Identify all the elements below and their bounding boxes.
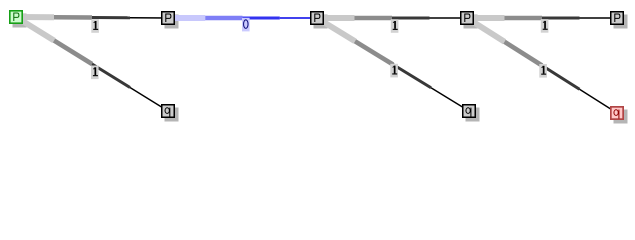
edge P1 to P2 (gray) (16, 17, 168, 18)
node P5 (P) (610, 11, 624, 25)
edge label 1 (L4) (391, 19, 399, 33)
shadow of node P5 (614, 15, 628, 29)
edge P4 to P5 (gray) (467, 15, 617, 21)
node P2 (P) (161, 11, 175, 25)
node q2 (q) (462, 104, 476, 118)
node P4 (P) (460, 11, 474, 25)
edge label 1 (L6) (541, 19, 549, 33)
edge label 0 (L3) (242, 18, 250, 32)
shadow of node q2 (466, 108, 480, 122)
edge P2 to P3 (blue) (168, 15, 317, 21)
edge label 1 (L5) (390, 64, 398, 78)
node P3 (P) (310, 11, 324, 25)
edge label 1 (L7) (539, 64, 547, 78)
shadow of node q3 (614, 110, 628, 124)
node q1 (q) (161, 104, 175, 118)
edge label 1 (L2) (91, 66, 99, 80)
shadow of node P4 (464, 15, 478, 29)
node P1 (P) (9, 10, 23, 24)
shadow of node P1 (13, 14, 27, 28)
edge P3 to q2 (gray) (317, 18, 469, 111)
edge P4 to q3 (gray) (467, 18, 617, 113)
shadow of node P3 (314, 15, 328, 29)
shadow of node q1 (165, 108, 179, 122)
shadow of node P2 (165, 15, 179, 29)
edge label 1 (L1) (91, 19, 99, 33)
node q3 (q) (610, 106, 624, 120)
edge P1 to q1 (gray) (16, 17, 168, 111)
edge P3 to P4 (gray) (317, 15, 467, 21)
